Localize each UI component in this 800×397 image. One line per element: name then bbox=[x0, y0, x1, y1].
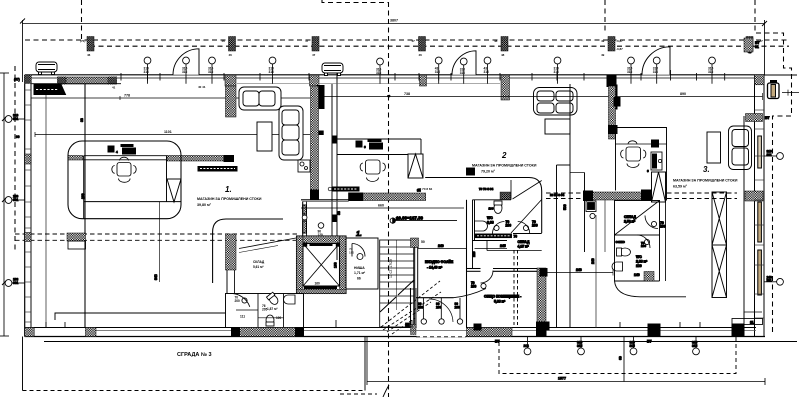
entrance top line bbox=[416, 297, 454, 299]
shop2 sofa bbox=[534, 88, 578, 135]
skl 2.50 room bbox=[615, 201, 660, 236]
svg-text:- 14,46 м²: - 14,46 м² bbox=[427, 266, 443, 270]
toilet 2 bbox=[266, 315, 274, 326]
door leaf 2 bbox=[440, 298, 442, 319]
left wall mullion ticks bbox=[25, 90, 31, 322]
svg-text:38: 38 bbox=[80, 118, 84, 122]
right wall bbox=[754, 75, 756, 337]
dashed stair fan bbox=[381, 281, 441, 334]
pier hatch x310 bbox=[310, 75, 320, 86]
dashed double y234 bbox=[15, 234, 298, 240]
diagonal skl bbox=[239, 238, 296, 249]
shop3 coffee table bbox=[707, 132, 721, 163]
dashed vertical x81 bbox=[81, 0, 83, 39]
column K3 bbox=[312, 37, 319, 52]
svg-text:66: 66 bbox=[357, 277, 361, 281]
svg-text:200: 200 bbox=[532, 223, 538, 227]
wc lower right room bbox=[612, 201, 666, 282]
svg-text:168: 168 bbox=[334, 262, 338, 268]
door arc common bbox=[481, 271, 494, 284]
door leaf 1 bbox=[422, 298, 424, 319]
pier b1 bbox=[25, 328, 35, 337]
svg-text:140: 140 bbox=[634, 273, 640, 277]
shop3 round table bbox=[621, 141, 646, 168]
dim 246 bbox=[546, 272, 613, 274]
door arc1 bbox=[645, 216, 658, 229]
dark cap top bbox=[540, 269, 547, 277]
svg-text:3.: 3. bbox=[703, 165, 710, 174]
svg-text:391: 391 bbox=[13, 198, 19, 202]
stair right wall bbox=[415, 247, 418, 328]
svg-text:200: 200 bbox=[471, 284, 477, 288]
svg-text:WC: WC bbox=[487, 216, 493, 220]
svg-text:111: 111 bbox=[240, 315, 245, 319]
svg-text:316: 316 bbox=[692, 341, 698, 345]
left grid circle 2 bbox=[5, 195, 25, 204]
wall hatch vert x310-318 bbox=[311, 86, 319, 199]
cabin inner walls bbox=[83, 156, 85, 219]
svg-text:50: 50 bbox=[421, 240, 425, 244]
svg-text:316: 316 bbox=[435, 70, 441, 74]
wall x744 vert bbox=[743, 116, 745, 328]
dashed vertical x388 full bbox=[388, 2, 390, 397]
pier dark 536 bbox=[537, 322, 547, 337]
svg-text:590: 590 bbox=[563, 204, 567, 210]
black cap x318 bbox=[319, 131, 324, 135]
column K6 bbox=[608, 37, 615, 52]
svg-text:МАГАЗИН ЗА ПРОМИШЛЕНИ СТОКИ: МАГАЗИН ЗА ПРОМИШЛЕНИ СТОКИ bbox=[472, 164, 537, 168]
black display bar room1 bbox=[34, 85, 66, 95]
horiz wall hatch y157 left bbox=[68, 156, 83, 161]
shelf line shop1 bbox=[55, 313, 226, 320]
wall x85 bbox=[84, 84, 86, 328]
sofa vertical part bbox=[279, 106, 303, 160]
svg-text:5,88 м²: 5,88 м² bbox=[494, 300, 506, 304]
stair cut diagonal bbox=[380, 280, 414, 312]
svg-text:200: 200 bbox=[455, 305, 461, 309]
elevator shaft bbox=[297, 236, 347, 294]
sink bbox=[612, 262, 623, 271]
svg-text:МАГАЗИН ЗА ПРОМИШЛЕНИ СТОКИ: МАГАЗИН ЗА ПРОМИШЛЕНИ СТОКИ bbox=[197, 197, 262, 201]
wc upper room walls bbox=[418, 168, 542, 289]
foyer left pilaster bbox=[302, 202, 307, 237]
svg-text:46: 46 bbox=[87, 53, 91, 57]
sink G bbox=[284, 295, 296, 304]
door D1 arc bbox=[173, 49, 199, 75]
left wall pier hatch2 bbox=[25, 233, 31, 242]
sink wc bbox=[475, 221, 488, 231]
small rect below bbox=[68, 241, 86, 249]
left wall bbox=[24, 75, 26, 337]
grid mark T2 bbox=[182, 57, 189, 84]
shop3 cubicle bbox=[616, 128, 667, 201]
door arc wc1 bbox=[230, 293, 250, 306]
pier dark at 472 bbox=[467, 168, 475, 175]
desk gear bbox=[108, 145, 136, 155]
dim 240/245 bbox=[418, 248, 467, 250]
svg-text:46: 46 bbox=[222, 39, 226, 43]
horiz hatch wall y193 bbox=[349, 193, 426, 201]
svg-text:48: 48 bbox=[494, 39, 498, 43]
entrance wall pier bbox=[406, 288, 417, 335]
svg-text:18 18 8 84: 18 18 8 84 bbox=[550, 193, 565, 197]
corner nested bbox=[744, 312, 762, 319]
window mullions bbox=[121, 70, 725, 81]
svg-text:200: 200 bbox=[641, 244, 646, 248]
dashed y193 group bbox=[546, 193, 737, 199]
dim line 1577 bbox=[367, 337, 765, 385]
pier dark bbox=[108, 77, 117, 85]
svg-text:49: 49 bbox=[601, 53, 605, 57]
inner line 2 bbox=[85, 330, 756, 332]
grid mark T8 bbox=[484, 57, 491, 84]
svg-text:240: 240 bbox=[591, 258, 595, 264]
foyer right wall bbox=[466, 200, 468, 328]
svg-text:316: 316 bbox=[144, 70, 150, 74]
svg-text:±0.00=167.30: ±0.00=167.30 bbox=[396, 216, 424, 221]
right small dim tick bbox=[782, 92, 799, 94]
section arrow bbox=[383, 385, 389, 397]
pier dark 648 bbox=[648, 324, 660, 337]
svg-text:200: 200 bbox=[660, 224, 666, 228]
svg-text:180: 180 bbox=[636, 264, 642, 268]
shop2 coffee table bbox=[545, 119, 570, 134]
grid mark T9 bbox=[554, 57, 561, 84]
entrance vestibule bbox=[406, 288, 487, 337]
foyer top inner line bbox=[303, 201, 349, 203]
svg-text:200: 200 bbox=[418, 305, 424, 309]
divider wall shop2/3 bbox=[557, 84, 585, 328]
svg-text:63,59 м²: 63,59 м² bbox=[673, 184, 688, 188]
svg-text:738: 738 bbox=[404, 92, 410, 96]
svg-text:47: 47 bbox=[305, 39, 309, 43]
horiz wall hatch y157 right bbox=[167, 156, 224, 162]
svg-text:46: 46 bbox=[419, 53, 423, 57]
right ext vertical bbox=[764, 20, 766, 75]
svg-text:316: 316 bbox=[577, 341, 583, 345]
svg-text:316: 316 bbox=[627, 70, 633, 74]
dim line 738-890 bbox=[319, 96, 763, 98]
inner wall line segs bbox=[237, 83, 500, 85]
door leaf 3 bbox=[459, 298, 461, 319]
niche room bbox=[346, 238, 378, 289]
wall x584 vert bbox=[584, 201, 586, 253]
svg-text:890: 890 bbox=[680, 92, 686, 96]
walls bbox=[226, 294, 304, 328]
grid mark T10 bbox=[627, 57, 634, 84]
pier hatch x420 bbox=[420, 75, 427, 86]
svg-text:240: 240 bbox=[438, 244, 444, 248]
svg-text:2,38: 2,38 bbox=[487, 220, 494, 224]
wall inner line left bbox=[31, 83, 121, 85]
pier dark left corner bbox=[25, 75, 32, 84]
top line extension bbox=[764, 74, 797, 76]
svg-text:1,71 м²: 1,71 м² bbox=[354, 271, 366, 275]
svg-text:79,20 м²: 79,20 м² bbox=[481, 170, 496, 174]
svg-text:2,88 м²: 2,88 м² bbox=[636, 260, 648, 264]
svg-text:1101: 1101 bbox=[164, 130, 172, 134]
left wall pier hatch bbox=[25, 154, 31, 164]
pier hatch 50 bbox=[411, 238, 419, 248]
svg-text:38: 38 bbox=[337, 211, 341, 215]
svg-text:316: 316 bbox=[484, 70, 490, 74]
pier dark bbox=[57, 77, 66, 85]
dark end left bbox=[349, 193, 363, 201]
svg-text:2,50 м²: 2,50 м² bbox=[624, 220, 636, 224]
hatch band bath bbox=[232, 328, 304, 337]
line y177 to corner bbox=[425, 178, 542, 234]
sofa horizontal part bbox=[239, 87, 281, 110]
wall x46 bbox=[45, 84, 47, 328]
right radiator bbox=[768, 81, 780, 99]
svg-text:МАГАЗИН ЗА ПРОМИШЛЕНИ СТОКИ: МАГАЗИН ЗА ПРОМИШЛЕНИ СТОКИ bbox=[673, 179, 738, 183]
hatch wall x609 bbox=[609, 86, 616, 139]
sink fixture bbox=[298, 160, 310, 172]
svg-text:39,80 м²: 39,80 м² bbox=[197, 203, 212, 207]
svg-text:НИША: НИША bbox=[354, 266, 365, 270]
svg-text:ВХОДНО ФОАЙЕ: ВХОДНО ФОАЙЕ bbox=[425, 260, 454, 264]
black bar x611 bbox=[612, 85, 618, 109]
svg-text:WC: WC bbox=[636, 255, 642, 259]
svg-text:1,87 м²: 1,87 м² bbox=[267, 307, 278, 311]
svg-text:660: 660 bbox=[378, 204, 384, 208]
toilet 1 bbox=[266, 292, 279, 306]
grid mark T5 bbox=[376, 58, 383, 84]
svg-text:40 41: 40 41 bbox=[198, 85, 206, 89]
pier hatch 140 bbox=[644, 272, 654, 282]
door arc wc bbox=[493, 222, 505, 234]
elevator door sill bbox=[310, 243, 332, 246]
pier hatch at 500 bbox=[500, 192, 511, 200]
bottom wall bbox=[25, 327, 756, 329]
black bar below pier310 bbox=[317, 86, 324, 109]
black tick x334 bbox=[333, 136, 336, 143]
top dimension line bbox=[22, 23, 765, 25]
svg-text:СКЛАД: СКЛАД bbox=[518, 240, 530, 244]
svg-text:316: 316 bbox=[554, 70, 560, 74]
dashed line upper bbox=[25, 39, 789, 41]
grid mark T12 bbox=[708, 57, 715, 84]
svg-text:11 СТ. 17/29: 11 СТ. 17/29 bbox=[389, 259, 393, 278]
dashed right boundary bbox=[755, 0, 792, 335]
grid mark T11 bbox=[653, 57, 660, 84]
left dimension line bbox=[3, 73, 5, 336]
svg-text:200: 200 bbox=[235, 299, 241, 303]
corner rect 11 bbox=[732, 319, 763, 325]
left ext vertical bbox=[22, 20, 24, 82]
svg-text:48: 48 bbox=[501, 53, 505, 57]
right wall tan strips bbox=[758, 136, 762, 295]
hatch band y193 shop3 bbox=[584, 192, 642, 200]
svg-text:316: 316 bbox=[269, 70, 275, 74]
svg-text:47: 47 bbox=[312, 53, 316, 57]
dashed double vert x514 bbox=[514, 250, 518, 325]
sgrada box bbox=[23, 337, 366, 391]
shop2 chair bbox=[360, 160, 385, 182]
column K2 bbox=[229, 37, 236, 52]
wall end ticks bbox=[46, 320, 700, 328]
diagonal under stair bbox=[513, 181, 542, 200]
left grid circle 3 bbox=[5, 278, 25, 287]
brace shear wall mid bbox=[408, 154, 423, 178]
door arc2 bbox=[637, 235, 650, 248]
grid mark T6 bbox=[435, 57, 442, 84]
svg-text:76: 76 bbox=[514, 235, 518, 239]
grid mark T7 bbox=[460, 58, 467, 84]
BT labels bbox=[495, 340, 652, 344]
wall x597 vert bbox=[595, 215, 597, 328]
toilet bbox=[617, 248, 631, 256]
column K4 bbox=[419, 37, 426, 52]
AC unit 1 bbox=[36, 62, 57, 75]
ground line bbox=[44, 341, 797, 343]
svg-text:1577: 1577 bbox=[558, 377, 566, 381]
svg-text:212: 212 bbox=[524, 344, 530, 348]
svg-text:391: 391 bbox=[13, 281, 19, 285]
svg-text:200: 200 bbox=[506, 223, 512, 227]
pier hatch x501 bbox=[501, 75, 510, 100]
entrance opening whiteout bbox=[417, 327, 467, 337]
svg-text:-0,87: -0,87 bbox=[616, 47, 623, 51]
svg-text:316: 316 bbox=[376, 71, 382, 75]
svg-text:ОБЩО ПОМЕЩЕНИЕ -: ОБЩО ПОМЕЩЕНИЕ - bbox=[484, 295, 521, 299]
shop3 cabinet bbox=[647, 140, 662, 173]
hatch pier right top bbox=[744, 38, 753, 52]
X-brace column right bbox=[712, 192, 727, 298]
AC unit 2 bbox=[322, 63, 343, 84]
dim line 1101 bbox=[35, 134, 310, 136]
right grid circle 2 bbox=[764, 275, 783, 285]
svg-text:1.: 1. bbox=[225, 185, 232, 194]
svg-text:245: 245 bbox=[500, 244, 506, 248]
svg-text:46: 46 bbox=[229, 53, 233, 57]
svg-text:260: 260 bbox=[81, 193, 85, 199]
counter band shop2 bbox=[336, 139, 421, 155]
svg-text:(87): (87) bbox=[14, 78, 20, 82]
dark pier entrance bbox=[474, 324, 481, 330]
foyer top line bbox=[301, 199, 349, 201]
dark ends bbox=[232, 328, 240, 337]
svg-text:49: 49 bbox=[601, 39, 605, 43]
grid mark T4 bbox=[269, 57, 276, 84]
svg-text:4,87 м²: 4,87 м² bbox=[518, 245, 530, 249]
curved room corner bbox=[615, 281, 687, 297]
door D2 arc bbox=[452, 51, 476, 75]
wall hatch vert x225-236 bbox=[226, 86, 237, 117]
svg-text:1.: 1. bbox=[356, 231, 362, 238]
svg-text:70 70 8 84: 70 70 8 84 bbox=[418, 187, 433, 191]
svg-text:5,61 м²: 5,61 м² bbox=[253, 265, 264, 269]
texts bbox=[235, 260, 282, 320]
svg-text:47: 47 bbox=[412, 39, 416, 43]
svg-text:СГРАДА № 3: СГРАДА № 3 bbox=[177, 352, 212, 358]
dim 660 bbox=[301, 207, 464, 209]
door D3 arc bbox=[642, 47, 670, 75]
corridor bench bar bbox=[476, 234, 518, 239]
svg-text:348: 348 bbox=[154, 274, 158, 280]
svg-text:2: 2 bbox=[501, 151, 507, 160]
dashed vertical left x15 bbox=[14, 66, 16, 250]
partition x159.5 bbox=[159, 202, 161, 282]
svg-text:185: 185 bbox=[349, 250, 354, 254]
dark pier bbox=[584, 191, 593, 201]
svg-text:778: 778 bbox=[124, 94, 130, 98]
column K7 bbox=[746, 37, 753, 52]
wall x334 double bbox=[331, 84, 333, 240]
svg-text:316: 316 bbox=[708, 70, 714, 74]
threshold dashed bbox=[416, 336, 466, 338]
dark cap bottom bbox=[540, 322, 549, 330]
svg-text:316: 316 bbox=[630, 341, 636, 345]
hatch wall x537-546 bbox=[537, 268, 546, 328]
texts skl/wc right bbox=[550, 193, 666, 277]
door arc skl bbox=[518, 222, 530, 234]
coffee table bbox=[257, 122, 272, 151]
elevation marker bbox=[390, 216, 457, 224]
svg-text:316: 316 bbox=[653, 70, 659, 74]
dashed line lower bbox=[90, 45, 789, 47]
dashed bottom-left bbox=[340, 393, 377, 395]
svg-text:90: 90 bbox=[16, 135, 20, 139]
svg-text:391: 391 bbox=[767, 153, 773, 157]
right texts bbox=[748, 41, 770, 120]
wall hatch top-left bbox=[66, 77, 108, 84]
svg-text:-0,87: -0,87 bbox=[616, 39, 623, 43]
shelf bar 1 bbox=[198, 167, 237, 172]
entrance swing arc bbox=[429, 299, 453, 322]
foyer grid circle bbox=[318, 223, 324, 237]
svg-text:115: 115 bbox=[472, 251, 476, 257]
dim vert x624 bbox=[619, 337, 625, 382]
right grid circle 1 bbox=[764, 150, 783, 160]
svg-text:11: 11 bbox=[750, 321, 754, 325]
svg-text:41: 41 bbox=[112, 86, 116, 90]
svg-text:316: 316 bbox=[460, 71, 466, 75]
dark pier2 bbox=[642, 190, 652, 201]
svg-text:СКЛАД: СКЛАД bbox=[624, 215, 636, 219]
brace shop3 bbox=[652, 172, 666, 202]
bottom grid circles bbox=[524, 337, 700, 355]
pier hatch right wall bbox=[746, 114, 763, 122]
brace triangle bbox=[167, 179, 181, 202]
pier dark x606 bbox=[607, 75, 617, 87]
hatch band entrance bbox=[467, 328, 513, 337]
svg-text:100: 100 bbox=[276, 316, 282, 320]
dark end of x310 wall bbox=[311, 190, 319, 199]
dashed top box bbox=[322, 0, 389, 3]
pier b2 bbox=[86, 328, 97, 337]
left grid circle 1 bbox=[5, 114, 25, 123]
svg-text:СКЛАД: СКЛАД bbox=[253, 260, 265, 264]
column K5 bbox=[501, 37, 508, 52]
svg-text:ОФИС: ОФИС bbox=[616, 240, 626, 244]
shop3 sofa vertical bbox=[729, 126, 752, 170]
svg-text:160: 160 bbox=[315, 282, 321, 286]
pier hatch at x69 y234 bbox=[67, 233, 86, 241]
pier hatch x225 bbox=[225, 75, 236, 86]
svg-text:391: 391 bbox=[13, 117, 19, 121]
svg-text:(70): (70) bbox=[80, 39, 85, 43]
svg-text:316: 316 bbox=[208, 70, 214, 74]
column K1 bbox=[87, 37, 94, 52]
shop2 desk bbox=[356, 140, 383, 150]
dashed vertical x605 bbox=[604, 0, 606, 33]
top wall window lines bbox=[25, 74, 765, 76]
svg-text:100: 100 bbox=[489, 207, 494, 211]
dashed dim rect bbox=[499, 337, 736, 374]
grid mark T1 bbox=[144, 57, 151, 84]
dark pier x614 bbox=[614, 98, 620, 107]
